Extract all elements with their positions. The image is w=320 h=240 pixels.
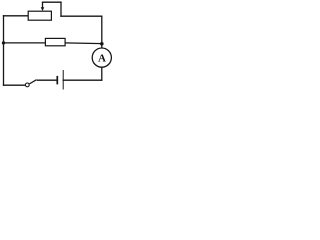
battery BT1 negative short plate	[56, 76, 58, 85]
rheostat R1 wiper arrow stem	[42, 2, 44, 7]
wire top-right horizontal	[61, 15, 102, 17]
battery BT1 positive long plate	[62, 70, 64, 90]
wire middle horizontal left of R2	[4, 42, 46, 44]
rheostat R1 wiper arrowhead	[41, 7, 45, 11]
switch S1 pivot circle	[25, 83, 29, 87]
wire ammeter bottom vertical	[101, 67, 103, 80]
wire wiper top horizontal	[43, 1, 62, 3]
wire middle horizontal right of R2	[65, 42, 102, 45]
svg-text:A: A	[98, 52, 106, 64]
node junction right	[100, 42, 104, 46]
wire battery-left horizontal	[37, 79, 57, 81]
node junction left	[2, 41, 5, 44]
switch S1 lever	[29, 80, 36, 84]
wire top-left horizontal	[4, 15, 29, 17]
wire left rail vertical	[3, 16, 5, 85]
rheostat R1 body	[28, 11, 51, 20]
wire bottom-left horizontal	[4, 84, 26, 86]
resistor R2 body	[45, 38, 65, 45]
wire right rail upper vertical	[101, 16, 103, 48]
wire jog vertical	[60, 2, 62, 16]
ammeter A1 circle	[92, 48, 111, 67]
wire bottom-right horizontal	[63, 79, 102, 81]
